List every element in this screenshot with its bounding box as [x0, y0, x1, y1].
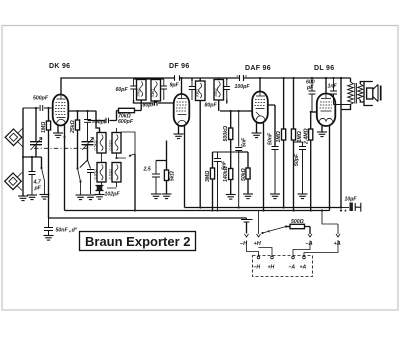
resistor 25kΩ (DK96 osc grid) — [68, 111, 96, 120]
svg-text:60pF: 60pF — [116, 87, 129, 93]
capacitor 80pF (series grid) — [155, 100, 158, 106]
svg-text:50pF: 50pF — [294, 153, 300, 166]
wire B+ vertical — [340, 78, 342, 208]
switch band S1a — [78, 130, 81, 195]
svg-text:500Ω: 500Ω — [291, 219, 304, 225]
svg-text:9pF: 9pF — [170, 83, 180, 89]
capacitor 5nF det — [235, 111, 242, 208]
svg-text:1MΩ: 1MΩ — [41, 122, 47, 133]
svg-text:DF 96: DF 96 — [169, 63, 190, 70]
ferrite antenna loop 1 — [5, 129, 22, 146]
svg-text:+A: +A — [334, 241, 341, 247]
capacitor 4,7pF — [29, 172, 36, 196]
wire DAF96 filament drop — [263, 123, 265, 211]
ferrite antenna loop 2 — [5, 173, 22, 190]
node input — [35, 107, 50, 109]
ground 50k — [243, 194, 253, 199]
resistor 1MΩ (grid leak) — [48, 108, 50, 121]
wire DK96 filament drop — [64, 125, 66, 211]
speaker cone — [373, 85, 378, 102]
osc coil box L3 — [97, 163, 106, 183]
wire osc anode drop — [96, 111, 100, 133]
tube DAF96 internals — [255, 92, 266, 121]
ground DK96 cathode — [57, 125, 59, 133]
resistor 1MΩ a — [283, 78, 285, 129]
wire DL96 anode top — [325, 78, 327, 94]
ground divider — [226, 195, 236, 200]
capacitor 60pF (T1 primary tuning) — [130, 79, 136, 100]
capacitor 50nF AF coupling — [272, 147, 279, 195]
tube DL96 internals — [320, 94, 333, 122]
switch S1c — [42, 168, 45, 195]
bus line 1 (B+) — [185, 207, 342, 209]
switch band S1b — [115, 155, 131, 160]
wire DAF96 anode to bus — [259, 78, 261, 92]
svg-text:2,5: 2,5 — [143, 167, 151, 173]
svg-text:50kΩ: 50kΩ — [241, 168, 247, 181]
terminal -H — [245, 234, 249, 237]
svg-text:0,63Ω: 0,63Ω — [108, 140, 112, 150]
capacitor 600pF grid — [309, 78, 316, 112]
svg-text:0,63Ω: 0,63Ω — [108, 169, 112, 179]
svg-text:1MΩ: 1MΩ — [276, 131, 282, 142]
Braun Exporter 2 box — [80, 232, 196, 251]
wire DF96 anode to bus — [181, 78, 183, 94]
switch on/off — [263, 227, 287, 234]
wire T1 tops to bus — [134, 78, 164, 80]
tube DK96 internals — [55, 95, 66, 124]
speaker frame — [364, 82, 373, 106]
resistor 500kΩ divider — [230, 111, 232, 128]
svg-text:0,95Ω: 0,95Ω — [93, 169, 97, 179]
resistor 5kΩ screen — [156, 161, 167, 171]
svg-text:+A: +A — [300, 265, 307, 271]
svg-text:2,4MΩ: 2,4MΩ — [303, 128, 309, 145]
wire top bus y78 — [61, 78, 351, 95]
svg-text:DK 96: DK 96 — [49, 63, 70, 70]
bus line 3 — [49, 217, 247, 219]
osc coil box L4 — [112, 163, 121, 183]
svg-text:1MΩ: 1MΩ — [297, 131, 303, 142]
resistor 70kΩ (AGC) — [88, 120, 105, 122]
svg-text:102pF: 102pF — [105, 192, 121, 198]
svg-text:+: + — [344, 209, 347, 215]
node dots on top bus — [180, 77, 342, 79]
battery terminal -A — [292, 256, 295, 259]
capacitor 10µF electrolytic — [341, 207, 349, 209]
resistor 3MΩ — [212, 152, 214, 168]
svg-text:1nF: 1nF — [328, 84, 338, 90]
svg-text:pF: pF — [34, 186, 42, 192]
capacitor 2,5nF screen — [152, 161, 160, 195]
battery terminal +A — [303, 256, 306, 259]
capacitor padding — [80, 160, 94, 194]
IF transformer T2 secondary box — [214, 80, 224, 101]
svg-text:500kΩ: 500kΩ — [223, 126, 229, 142]
resistor 140kΩ divider lower — [229, 169, 233, 180]
bus line 2 (filament) — [65, 210, 330, 212]
output transformer secondary — [358, 84, 363, 100]
svg-text:50nF: 50nF — [268, 132, 274, 145]
tube DF96 internals — [176, 94, 187, 125]
tube DL96 envelope — [317, 94, 336, 127]
resistor 50kΩ — [239, 152, 248, 168]
svg-text:DL 96: DL 96 — [314, 65, 334, 72]
capacitor 9pF (series, top bus) — [175, 75, 180, 81]
wire T2 tops — [192, 78, 227, 81]
ground DF96 cathode — [178, 126, 180, 134]
terminal +A — [322, 211, 340, 238]
svg-text:5kΩ: 5kΩ — [170, 171, 176, 181]
tube DK96 envelope — [53, 95, 69, 126]
variable capacitor C-tune2 — [82, 142, 94, 160]
gang dash line — [34, 147, 88, 149]
svg-text:80pF: 80pF — [205, 103, 218, 109]
ground row left — [22, 195, 24, 196]
capacitor 50pF — [294, 142, 307, 194]
wire T2 primary bottom long drop — [199, 101, 201, 208]
tube DF96 envelope — [174, 94, 190, 126]
battery terminal -H — [257, 256, 260, 259]
terminal -A — [308, 234, 312, 237]
terminal +H — [257, 211, 261, 238]
trimmer capacitor 102pF — [97, 186, 103, 191]
svg-text:Braun Exporter 2: Braun Exporter 2 — [85, 234, 190, 249]
ground 50nF — [270, 194, 280, 199]
svg-text:5nF: 5nF — [242, 137, 248, 147]
svg-text:3MΩ: 3MΩ — [205, 171, 211, 182]
output transformer core — [355, 83, 357, 104]
osc coil box L1 — [97, 133, 106, 154]
wire T1 secondary bottom to DF96 grid — [134, 100, 174, 103]
svg-text:0,5kΩ: 0,5kΩ — [93, 140, 97, 150]
IF transformer T2 primary box — [196, 81, 206, 101]
svg-text:–A: –A — [306, 241, 313, 247]
capacitor T1 secondary tuning — [161, 79, 167, 100]
svg-text:600pF: 600pF — [118, 119, 134, 125]
capacitor 1nF tone — [330, 78, 351, 105]
svg-text:50nF „d“: 50nF „d“ — [56, 228, 78, 234]
capacitor 90pF — [84, 111, 91, 142]
resistor 500Ω — [286, 226, 290, 228]
capacitor 5nF AF — [213, 152, 239, 211]
node osc — [76, 110, 88, 112]
tube DAF96 envelope — [252, 92, 268, 124]
ground osc — [76, 195, 86, 200]
ground 50pF — [298, 194, 308, 199]
capacitor 100pF (series, top bus) — [240, 75, 244, 81]
wire DL96 filament drop — [329, 126, 331, 211]
svg-text:140kΩ: 140kΩ — [223, 166, 229, 182]
svg-text:+H: +H — [254, 241, 262, 247]
battery terminal +H — [271, 256, 274, 259]
resistor 2,4MΩ grid leak DL96 — [310, 112, 312, 129]
wire DAF96 anode out — [268, 105, 275, 146]
svg-text:pF: pF — [306, 85, 314, 91]
wire osc coils — [102, 128, 136, 188]
ground DAF96 cathode — [256, 123, 258, 133]
svg-text:25kΩ: 25kΩ — [70, 120, 76, 134]
wire DF96 filament drop — [184, 126, 186, 208]
svg-text:10µF: 10µF — [345, 197, 358, 203]
variable capacitor C-tune1 — [30, 108, 42, 157]
svg-text:500pF: 500pF — [33, 96, 49, 102]
IF transformer T1 secondary box — [151, 80, 161, 102]
svg-text:–A: –A — [289, 265, 296, 271]
battery dashed box — [253, 256, 313, 277]
osc coil box L2 — [112, 133, 121, 154]
ground screen — [151, 194, 161, 199]
wire left vertical from input — [22, 108, 24, 196]
capacitor 50nF d — [44, 218, 53, 236]
svg-text:+H: +H — [268, 265, 275, 271]
capacitor T2 secondary tuning — [224, 80, 230, 100]
wire band bus — [134, 154, 136, 211]
svg-text:DAF 96: DAF 96 — [245, 65, 271, 72]
speaker magnet — [367, 88, 373, 99]
node dots bus — [134, 206, 342, 211]
IF transformer T1 primary box — [137, 80, 147, 101]
wire lw input row — [23, 157, 42, 172]
chassis tap — [241, 218, 253, 222]
svg-text:–H: –H — [254, 265, 261, 271]
resistor 1MΩ b — [293, 78, 295, 129]
capacitor 500pF (antenna input series) — [23, 105, 53, 111]
wire T2 secondary bottom to DAF96 grid — [219, 100, 253, 112]
svg-text:100pF: 100pF — [235, 84, 251, 90]
svg-text:80pF: 80pF — [143, 103, 156, 109]
wire DL96 grid — [311, 111, 317, 113]
ground DL96 cathode — [321, 126, 323, 132]
capacitor T2 primary tuning — [189, 81, 195, 100]
output transformer primary — [350, 78, 352, 82]
